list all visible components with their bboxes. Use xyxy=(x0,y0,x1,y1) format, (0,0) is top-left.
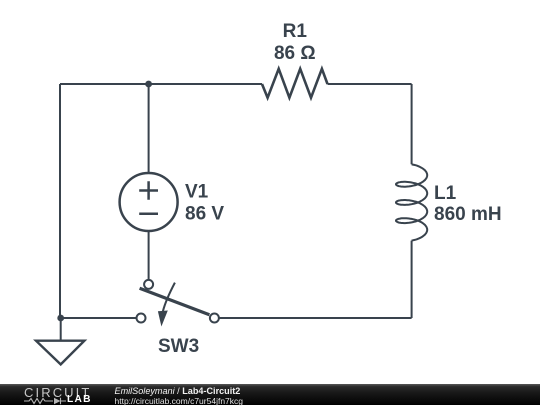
svg-text:86 V: 86 V xyxy=(185,204,224,225)
svg-text:R1: R1 xyxy=(283,21,308,42)
svg-text:SW3: SW3 xyxy=(158,336,199,357)
svg-text:V1: V1 xyxy=(185,181,209,202)
svg-text:86 Ω: 86 Ω xyxy=(274,43,316,64)
svg-text:L1: L1 xyxy=(434,183,457,204)
svg-text:860 mH: 860 mH xyxy=(434,204,502,225)
